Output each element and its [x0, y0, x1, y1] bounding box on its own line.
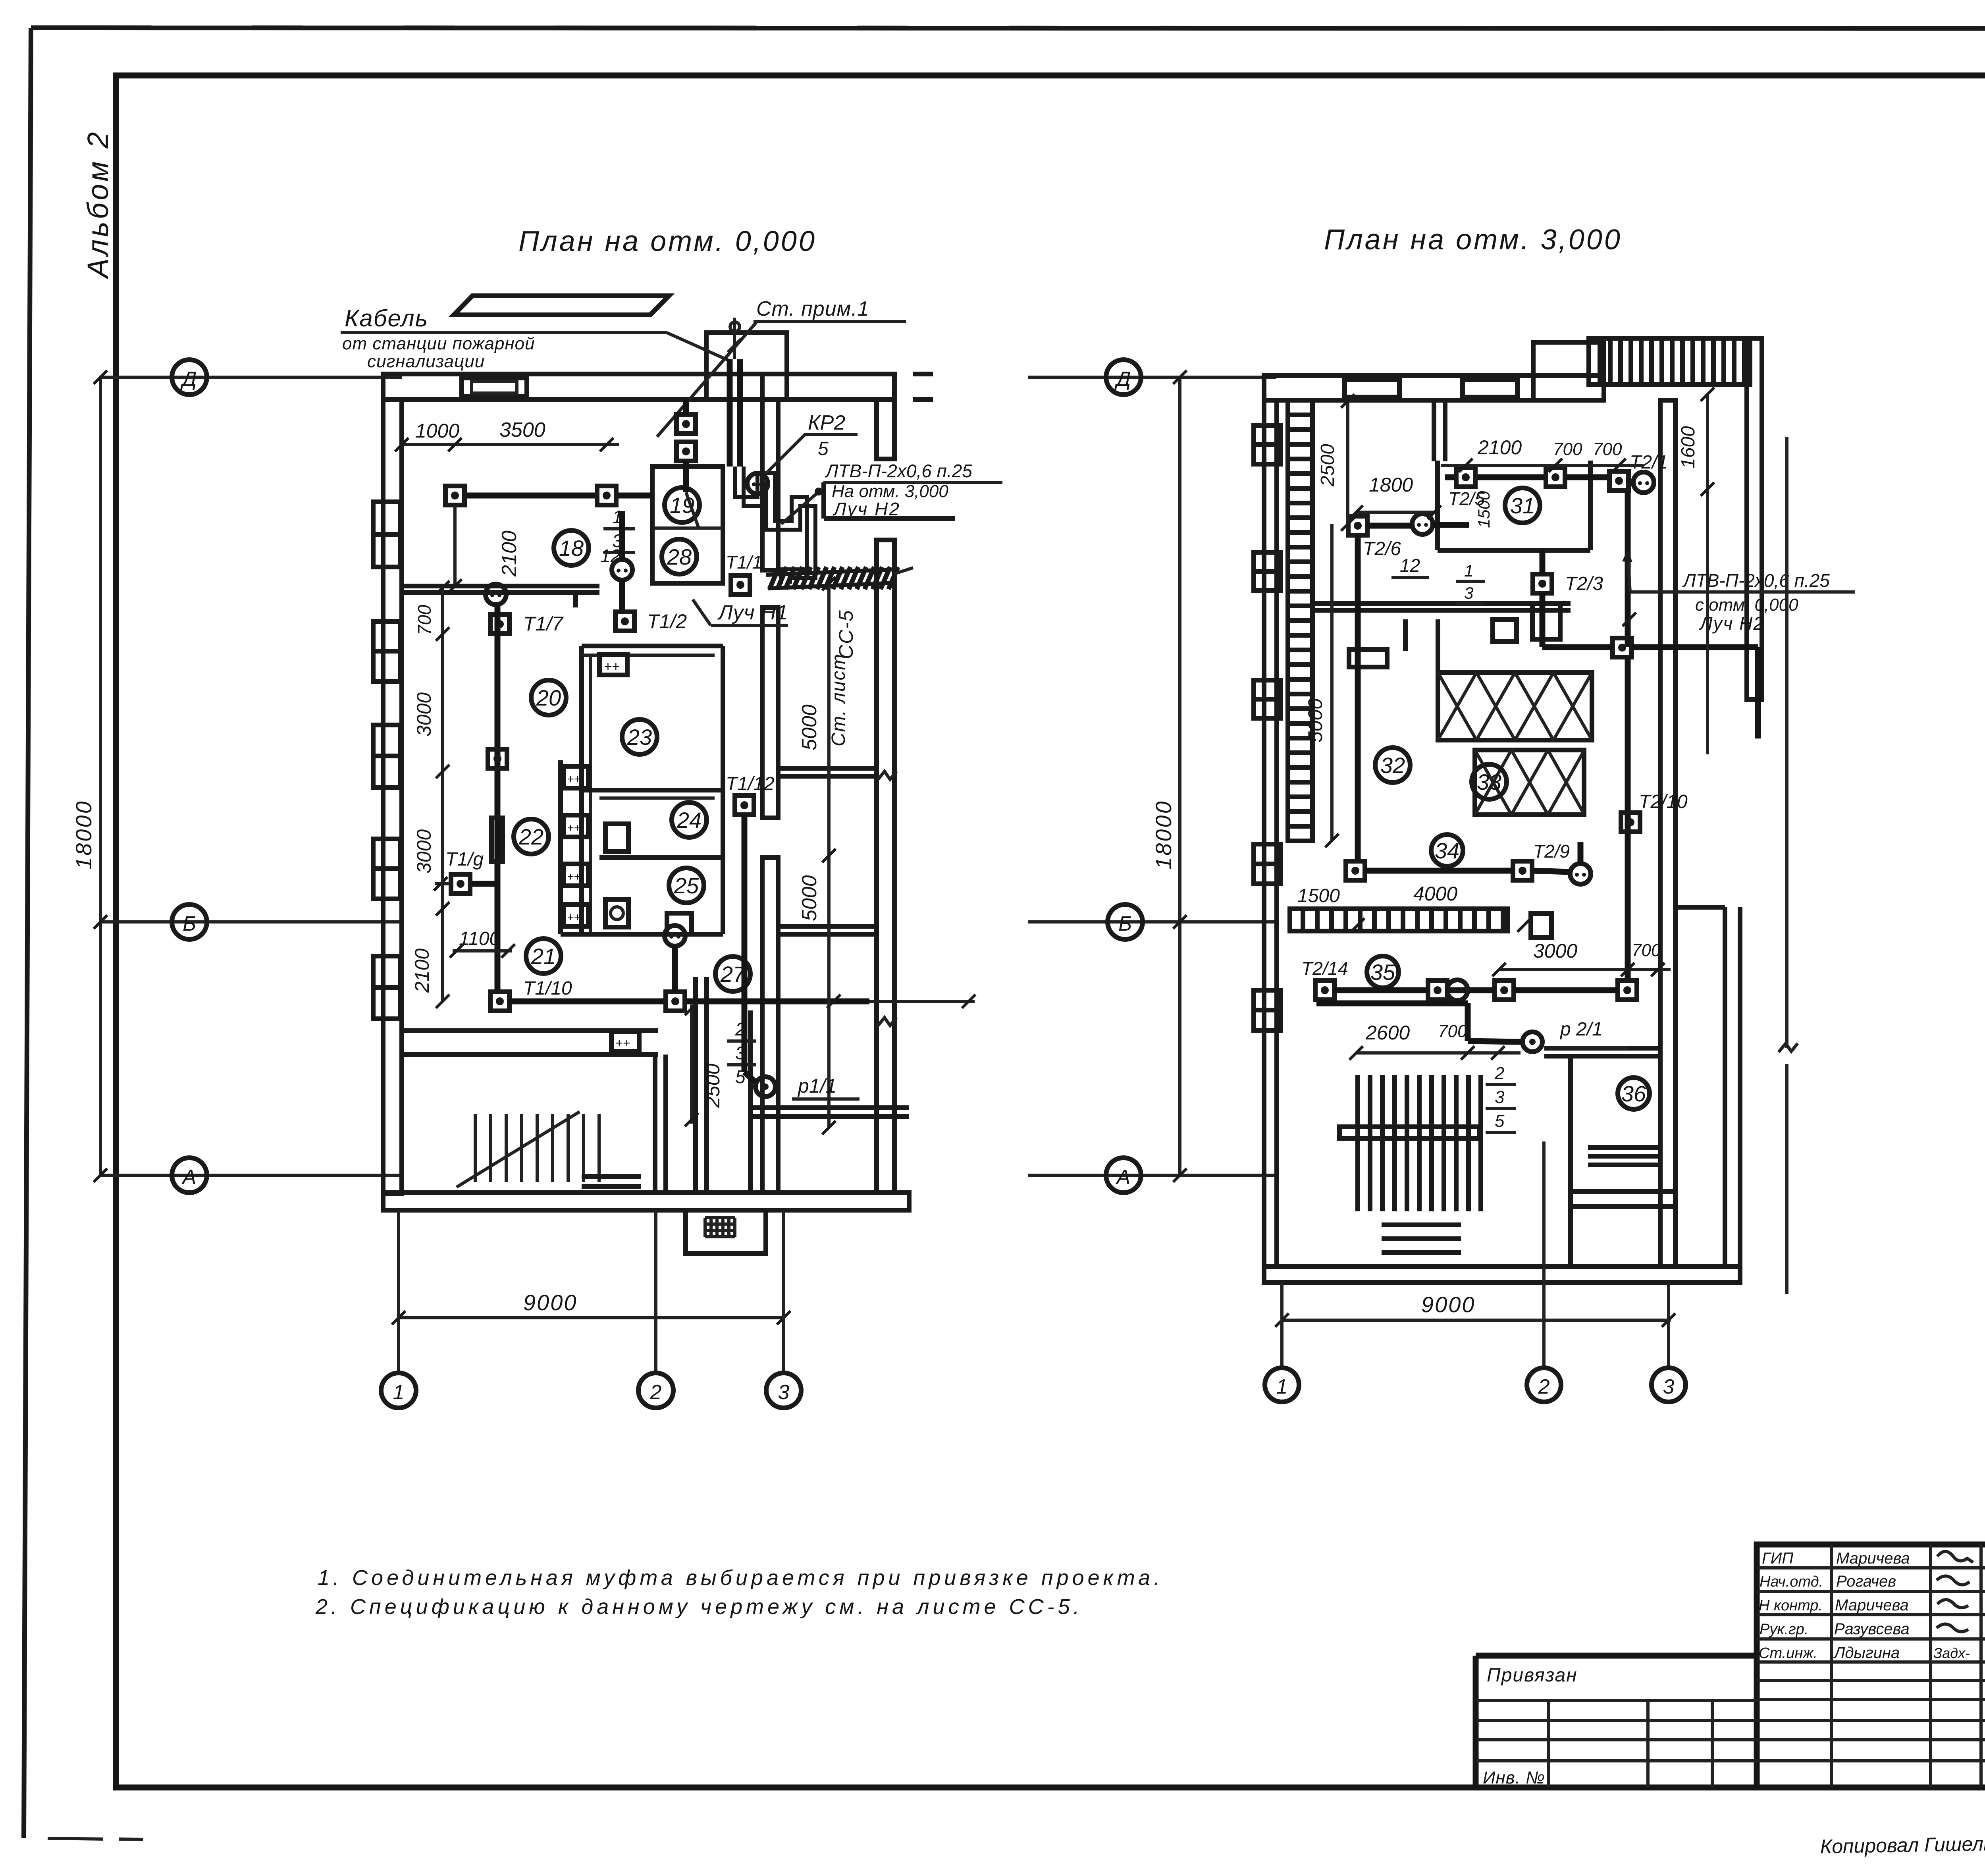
- detector 31 b: [1546, 468, 1565, 487]
- page outer border top: [31, 28, 1985, 29]
- detector on riser: [1613, 638, 1632, 657]
- window r4: [1254, 844, 1281, 884]
- axis circle 2: [638, 1373, 673, 1408]
- svg-text:1. Соединительная муфта выби: 1. Соединительная муфта выбирается при п…: [318, 1566, 1163, 1590]
- svg-text:700: 700: [414, 605, 435, 635]
- wardrobe ladder band horizontal: [1290, 909, 1507, 931]
- bottom wall right plan: [1264, 1267, 1740, 1282]
- window r1: [1254, 426, 1281, 464]
- svg-text:Т2/1: Т2/1: [1630, 452, 1668, 473]
- phone outlet corridor: [665, 925, 685, 946]
- annex outer right wall upper: [877, 399, 894, 459]
- svg-text:2500: 2500: [1317, 444, 1338, 487]
- signature lower rows: [1757, 1679, 1985, 1682]
- top wall annex: [762, 374, 894, 399]
- svg-text:31: 31: [1510, 493, 1535, 518]
- vert dim line annex: [827, 584, 831, 1128]
- window r3: [1254, 680, 1281, 718]
- svg-text:9000: 9000: [1421, 1292, 1476, 1317]
- wc stall room 25: [605, 899, 628, 927]
- svg-text:3000: 3000: [1533, 940, 1577, 962]
- small wall room33: [1436, 619, 1440, 673]
- svg-text:Т2/3: Т2/3: [1565, 573, 1603, 594]
- svg-text:Лдыгина: Лдыгина: [1833, 1644, 1900, 1662]
- bottom dim line 9000: [397, 1316, 785, 1319]
- detector T1-10: [490, 992, 509, 1011]
- svg-text:Маричева: Маричева: [1835, 1596, 1909, 1614]
- riser wire T1-7 down: [495, 605, 501, 991]
- axis 1 extension: [397, 1210, 400, 1373]
- left mini table: [1476, 1699, 1757, 1702]
- room circle 24: [672, 802, 707, 837]
- axis circle 2r: [1527, 1368, 1561, 1402]
- room circle 18: [554, 530, 589, 565]
- svg-text:++: ++: [567, 870, 581, 883]
- wire to p1-1: [742, 997, 748, 1072]
- signature table verticals: [1754, 1656, 1760, 1787]
- axis А circle: [172, 1158, 207, 1193]
- leader to riser: [657, 322, 756, 437]
- svg-text:Копировал Гишель: Копировал Гишель: [1820, 1832, 1985, 1858]
- riser from cable entry: [727, 359, 733, 467]
- svg-text:Б: Б: [1118, 912, 1132, 935]
- page outer border left: [24, 28, 31, 1838]
- wall under room 18: [402, 584, 599, 588]
- svg-text:700: 700: [1438, 1022, 1467, 1041]
- svg-text:Кабель: Кабель: [345, 305, 428, 332]
- svg-text:9000: 9000: [523, 1290, 578, 1315]
- svg-text:5: 5: [1495, 1111, 1505, 1131]
- svg-text:А: А: [1116, 1166, 1131, 1189]
- cable label line: [341, 331, 667, 334]
- far right cut line: [1785, 437, 1788, 1048]
- svg-text:++: ++: [615, 1036, 630, 1050]
- svg-text:3000: 3000: [413, 692, 435, 737]
- washbasin 2: [564, 815, 588, 837]
- axis Б line right: [1028, 920, 1276, 924]
- window r5: [1254, 990, 1281, 1030]
- wire T2-3: [1540, 550, 1546, 574]
- wire into room 19: [683, 399, 689, 415]
- svg-text:Луч Н2: Луч Н2: [833, 499, 900, 519]
- washbasin 1: [564, 766, 588, 788]
- axis 2r extension: [1542, 1141, 1546, 1367]
- staircase steps: [474, 1114, 477, 1182]
- wardrobe ladder band vertical: [1288, 400, 1312, 841]
- left plan group: [71, 296, 1002, 1408]
- axis Д circle: [172, 360, 207, 395]
- detector 31 a: [1456, 468, 1475, 487]
- vestibule wall left: [653, 1055, 657, 1193]
- axis 3r extension: [1667, 1282, 1670, 1367]
- svg-text:18000: 18000: [1151, 800, 1176, 870]
- svg-text:р 2/1: р 2/1: [1559, 1019, 1603, 1040]
- title block group: [1476, 1544, 1985, 1834]
- svg-text:18000: 18000: [71, 800, 96, 870]
- dim line 2500 vert: [690, 1005, 693, 1124]
- svg-text:2: 2: [1494, 1064, 1504, 1083]
- svg-text:5000: 5000: [798, 704, 821, 750]
- svg-text:ЛТВ-П-2х0,6 п.25: ЛТВ-П-2х0,6 п.25: [1682, 570, 1830, 591]
- svg-text:1: 1: [393, 1381, 405, 1404]
- svg-text:План на отм. 0,000: План на отм. 0,000: [518, 226, 817, 257]
- svg-text:1600: 1600: [1678, 426, 1699, 469]
- svg-text:++: ++: [567, 911, 581, 924]
- detector room18 b: [597, 486, 616, 505]
- svg-text:Б: Б: [183, 912, 196, 935]
- mid vertical wall middle: [762, 607, 778, 818]
- svg-text:3: 3: [1495, 1087, 1505, 1107]
- svg-text:КР2: КР2: [808, 411, 845, 434]
- svg-text:12: 12: [1400, 555, 1420, 576]
- window 1 left wall: [373, 502, 400, 567]
- entrance porch: [686, 1210, 766, 1253]
- svg-text:Разувсева: Разувсева: [1834, 1620, 1910, 1638]
- left outer wall: [383, 399, 402, 1193]
- top wall right plan: [1264, 376, 1604, 400]
- svg-text:с отм. 0,000: с отм. 0,000: [1695, 595, 1798, 615]
- corridor dim extension: [869, 1000, 975, 1003]
- dim ticks T1-9: [435, 882, 451, 885]
- top porch walls: [706, 333, 787, 399]
- svg-text:2100: 2100: [498, 530, 521, 577]
- svg-text:20: 20: [536, 685, 561, 710]
- detector T1-1: [731, 575, 750, 594]
- svg-text:Т1/12: Т1/12: [726, 773, 775, 794]
- room circle 20: [531, 680, 566, 715]
- stair bottom right plan: [1358, 1075, 1481, 1211]
- circle p2-1: [1522, 1032, 1542, 1052]
- annex wall b: [778, 924, 877, 929]
- svg-text:3500: 3500: [499, 418, 545, 442]
- svg-text:2100: 2100: [411, 949, 433, 993]
- axis А line right: [1028, 1174, 1276, 1177]
- window 3 left wall: [373, 725, 400, 787]
- svg-text:Луч Н1: Луч Н1: [717, 601, 788, 624]
- right plan group: [1028, 338, 1855, 1402]
- svg-text:700: 700: [1593, 440, 1622, 459]
- svg-text:24: 24: [676, 808, 701, 833]
- bottom dim 9000 right: [1281, 1319, 1671, 1322]
- wet block bottom wall: [561, 932, 723, 937]
- ЛТВ callout box: [821, 482, 826, 519]
- svg-text:Ст. лист: Ст. лист: [828, 653, 849, 746]
- dim 1500-4000: [1351, 918, 1364, 932]
- ЛТВ leader arrow: [781, 489, 822, 524]
- stairwell wall right plan: [1432, 400, 1436, 461]
- axis Б circle: [172, 904, 207, 939]
- room36 top wall: [1544, 1046, 1660, 1051]
- annex wall c: [750, 1105, 909, 1110]
- stair annex top right: [1589, 338, 1750, 384]
- svg-text:СС-5: СС-5: [835, 609, 857, 659]
- room circle 32: [1375, 748, 1410, 783]
- inner bottom wall right section: [1571, 1192, 1675, 1207]
- svg-text:1500: 1500: [1474, 491, 1493, 528]
- room 19-28 inner wall: [652, 526, 723, 530]
- washstand wall: [558, 760, 563, 934]
- svg-text:1100: 1100: [459, 928, 500, 949]
- window 5 left wall: [373, 956, 400, 1019]
- dim line 2100-700-700: [1441, 464, 1644, 467]
- mid vertical wall lower: [762, 858, 778, 1193]
- svg-text:сигнализации: сигнализации: [367, 352, 485, 371]
- wire T1-12 down: [742, 815, 748, 997]
- axis 1r extension: [1280, 1282, 1284, 1367]
- window 4 left wall: [373, 839, 400, 899]
- room 31 walls: [1438, 461, 1590, 550]
- room circle 25: [669, 868, 704, 903]
- svg-text:Рогачев: Рогачев: [1836, 1573, 1896, 1590]
- svg-text:3: 3: [1464, 584, 1473, 602]
- wire riser right: [1625, 491, 1631, 647]
- dim 3000-700: [1499, 968, 1671, 971]
- svg-text:++: ++: [604, 659, 620, 674]
- svg-text:3: 3: [1663, 1375, 1675, 1398]
- break mark far right: [1779, 1043, 1798, 1052]
- fixture box room 23: [599, 654, 627, 675]
- svg-text:28: 28: [667, 544, 692, 569]
- phone outlet T2-1: [1633, 472, 1654, 493]
- axis 3 extension: [782, 1210, 785, 1373]
- stair landing: [582, 1174, 641, 1179]
- svg-text:Инв. №: Инв. №: [1483, 1768, 1545, 1787]
- svg-text:Альбом 2: Альбом 2: [81, 130, 114, 280]
- axis circle 1r: [1265, 1368, 1299, 1402]
- shelf room 33: [1403, 619, 1408, 651]
- wire T2-6 down: [1355, 535, 1361, 862]
- svg-text:Т2/14: Т2/14: [1301, 958, 1348, 979]
- svg-text:2600: 2600: [1365, 1022, 1410, 1044]
- chimney b: [1463, 380, 1517, 397]
- junction box on riser: [488, 749, 507, 768]
- svg-text:34: 34: [1435, 838, 1459, 863]
- vestibule wall right: [693, 977, 698, 1193]
- svg-text:1500: 1500: [1297, 885, 1340, 906]
- leader КР2: [763, 434, 805, 476]
- title block outline: [1476, 1544, 1985, 1787]
- svg-text:700: 700: [1553, 440, 1582, 459]
- bench room 32: [1349, 650, 1387, 667]
- svg-text:1800: 1800: [1369, 474, 1413, 496]
- svg-text:32: 32: [1380, 753, 1405, 778]
- svg-text:21: 21: [531, 944, 556, 969]
- corridor wire: [509, 999, 666, 1005]
- svg-text:2: 2: [1538, 1375, 1550, 1398]
- svg-text:ЛТВ-П-2х0,6 п.25: ЛТВ-П-2х0,6 п.25: [825, 461, 972, 481]
- detector T2-6: [1348, 516, 1367, 535]
- room circle 19: [665, 488, 700, 523]
- box at band end: [1531, 914, 1551, 937]
- axis circle 1: [381, 1373, 416, 1408]
- right annex wall: [1747, 338, 1762, 700]
- svg-text:Н контр.: Н контр.: [1759, 1597, 1823, 1614]
- svg-text:Т2/9: Т2/9: [1533, 841, 1570, 862]
- svg-text:23: 23: [627, 725, 652, 750]
- svg-text:22: 22: [518, 824, 543, 849]
- svg-text:5: 5: [818, 438, 829, 459]
- wall under 31: [1312, 601, 1571, 606]
- svg-text:Т1/10: Т1/10: [523, 978, 572, 999]
- window 2 left wall: [373, 621, 400, 681]
- svg-text:Т1/7: Т1/7: [523, 613, 564, 635]
- circle p1-1: [755, 1077, 775, 1097]
- svg-text:Привязан: Привязан: [1487, 1665, 1578, 1686]
- svg-text:Т2/6: Т2/6: [1363, 538, 1401, 559]
- porch mat grid: [705, 1218, 735, 1237]
- wet block left wall: [579, 646, 584, 934]
- svg-text:Т1/g: Т1/g: [445, 849, 484, 870]
- detector T1-2: [615, 612, 634, 631]
- phone outlet T2-6: [1412, 514, 1433, 534]
- room circle 21: [526, 939, 561, 974]
- detector row 35: [1315, 981, 1334, 1000]
- wire T2-6: [1367, 523, 1412, 529]
- svg-text:План на отм. 3,000: План на отм. 3,000: [1324, 224, 1622, 256]
- detector T1-9: [451, 874, 470, 893]
- neighbour wall bottom right: [1723, 907, 1727, 1267]
- axis Б line: [99, 920, 402, 924]
- cable entry arrow: [733, 318, 736, 359]
- phone outlet near riser: [747, 473, 768, 494]
- svg-text:18: 18: [559, 536, 584, 561]
- detectors above room 19: [676, 415, 696, 434]
- svg-text:5000: 5000: [798, 875, 821, 921]
- axis Д line right: [1028, 376, 1276, 379]
- svg-text:Д: Д: [1114, 368, 1131, 391]
- axis А line: [99, 1174, 402, 1177]
- annex wall a: [778, 766, 877, 771]
- svg-text:35: 35: [1370, 960, 1395, 985]
- phone outlet above T1-7: [486, 584, 506, 605]
- room36 bench: [1588, 1145, 1660, 1150]
- dim 2600-700: [1356, 1051, 1521, 1055]
- svg-text:36: 36: [1621, 1081, 1646, 1106]
- vert dim 5000 r: [1330, 524, 1334, 841]
- vert dim line left inner: [441, 588, 444, 1001]
- svg-text:Д: Д: [180, 368, 197, 391]
- detector row 34: [1346, 861, 1365, 880]
- svg-text:25: 25: [674, 873, 699, 898]
- dim 1600 vert: [1706, 394, 1709, 754]
- svg-text:ГИП: ГИП: [1762, 1550, 1794, 1567]
- room36 left wall: [1568, 1056, 1573, 1267]
- detector room18 a: [445, 486, 464, 505]
- corridor bottom wall: [748, 1010, 753, 1193]
- axis Д circle right: [1106, 360, 1141, 395]
- washbasin 3: [564, 864, 588, 886]
- room circle 27: [715, 956, 750, 991]
- cable flag symbol: [454, 296, 669, 315]
- svg-text:Ст. прим.1: Ст. прим.1: [756, 297, 869, 320]
- room circle 33: [1472, 764, 1507, 799]
- thick conduit on riser: [491, 818, 503, 862]
- axis circle 3: [766, 1373, 801, 1408]
- wet block top wall: [582, 644, 723, 648]
- svg-text:Маричева: Маричева: [1836, 1550, 1910, 1567]
- stair bottom steps: [1382, 1222, 1461, 1227]
- room 19-28 enclosure: [652, 467, 723, 583]
- svg-text:Нач.отд.: Нач.отд.: [1760, 1573, 1823, 1590]
- dim 1800: [1356, 511, 1434, 514]
- riser zigzag to cable tray: [735, 467, 807, 584]
- wc stall room 24: [605, 824, 628, 852]
- cable tray arrow: [894, 568, 913, 574]
- svg-text:++: ++: [567, 821, 581, 835]
- wall under room 21: [402, 1028, 658, 1033]
- svg-text:А: А: [181, 1166, 197, 1189]
- corridor detector: [666, 992, 685, 1011]
- left outer wall right plan: [1264, 400, 1277, 1267]
- svg-text:Задх-: Задх-: [1933, 1645, 1970, 1661]
- right outer wall right plan: [1660, 400, 1675, 1267]
- room circle 34: [1431, 835, 1463, 866]
- detector T2-10: [1621, 813, 1640, 832]
- detector T1-7: [490, 615, 509, 634]
- detector row 31 wire: [1445, 474, 1456, 480]
- break mark right b: [877, 1018, 896, 1026]
- room circle 35: [1367, 956, 1399, 988]
- phone outlet row 35: [1447, 980, 1468, 1001]
- room circle 23: [622, 719, 657, 754]
- annex outer right wall lower: [877, 540, 894, 1193]
- room circle 28: [662, 539, 697, 574]
- detector T2-3: [1533, 574, 1552, 593]
- svg-text:1000: 1000: [415, 420, 459, 442]
- shower row 1: [1438, 673, 1592, 740]
- wire row 34: [1365, 868, 1513, 874]
- vert dim room18 2100: [453, 505, 457, 586]
- wet block right wall: [721, 646, 725, 934]
- svg-text:3000: 3000: [413, 829, 435, 873]
- svg-text:На отм. 3,000: На отм. 3,000: [832, 482, 948, 501]
- wall between rooms 23 and 24: [582, 788, 723, 792]
- top wall: [383, 374, 762, 399]
- axis А circle right: [1106, 1158, 1141, 1193]
- axis Б circle right: [1108, 904, 1143, 939]
- wire phone 34 up: [1578, 842, 1584, 864]
- ЛТВ leader right: [1628, 553, 1630, 592]
- vertical dim line 18000: [99, 377, 102, 1175]
- bottom wall: [383, 1193, 909, 1210]
- wire below 35: [1322, 1000, 1328, 1003]
- room circle 22: [514, 819, 549, 854]
- detectors room 18 wire: [464, 493, 597, 499]
- svg-text:2100: 2100: [1477, 436, 1522, 459]
- fixture room 25 bottom: [667, 913, 692, 934]
- svg-text:1: 1: [1276, 1375, 1288, 1398]
- cable tray hatched band: [766, 569, 894, 575]
- signature rows: [1757, 1566, 1985, 1569]
- phone outlet T1-2 chain: [612, 559, 632, 580]
- svg-text:1: 1: [1464, 561, 1473, 580]
- vert dim 2500-5000: [1346, 401, 1349, 524]
- svg-text:33: 33: [1477, 769, 1501, 794]
- mid vertical wall upper: [762, 399, 778, 570]
- room circle 31: [1505, 488, 1540, 523]
- tick on riser: [1623, 613, 1636, 626]
- axis Д line: [99, 376, 402, 379]
- neighbour wall stub top: [913, 372, 933, 376]
- dim line 1000-3500: [402, 443, 619, 446]
- fixture box near stair: [611, 1032, 639, 1051]
- staircase stringer: [457, 1112, 580, 1187]
- chimney on top wall: [462, 378, 527, 396]
- wall between rooms 24 and 25: [599, 855, 723, 860]
- washbasin 4: [564, 904, 588, 926]
- page bottom faint dashes: [48, 1838, 103, 1839]
- top porch right plan: [1533, 342, 1604, 400]
